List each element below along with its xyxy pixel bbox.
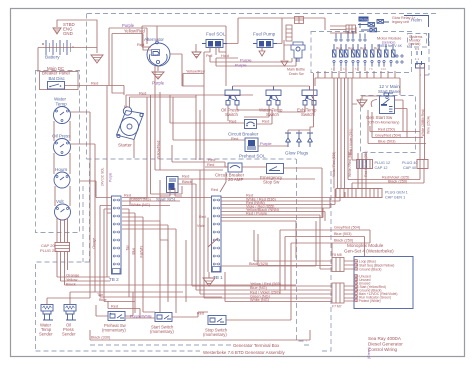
generator assembly dashed vertical x88 [89, 163, 91, 262]
wire fuel sol pull down to switch bus [203, 52, 205, 196]
ground gen start [357, 100, 367, 107]
motor module tiny labels [331, 68, 386, 71]
svg-text:Red: Red [336, 47, 342, 51]
svg-text:Red / Violet (250): Red / Violet (250) [349, 129, 353, 155]
wire oil press sender to gauge [70, 144, 95, 305]
motor module pin row top [335, 39, 366, 41]
svg-text:Purple: Purple [109, 173, 113, 182]
alternator [147, 43, 170, 66]
gen start switch [380, 96, 395, 114]
helm connector plugs [358, 20, 389, 32]
wire red alternator top [142, 46, 151, 48]
svg-text:Red: Red [229, 119, 236, 124]
svg-text:Diesel Generator: Diesel Generator [368, 342, 403, 347]
svg-text:Red: Red [197, 312, 204, 316]
wires grey/red blue black to module [280, 230, 370, 243]
svg-text:Bat Disc: Bat Disc [49, 76, 66, 81]
svg-text:Breaker Panel: Breaker Panel [42, 71, 70, 76]
wires gauge chain left [54, 121, 55, 206]
systems monitor pins [416, 51, 425, 68]
wires into F8 from left [221, 221, 332, 269]
exh temp switch [302, 86, 317, 105]
wire yellow/red pair vertical mid [155, 66, 160, 170]
motor module pin stubs [334, 63, 391, 67]
svg-text:Temp: Temp [56, 102, 68, 107]
svg-text:CAP 40: CAP 40 [403, 166, 416, 170]
helm boundary vertical dashed [86, 14, 88, 160]
ground below alternator [157, 66, 159, 71]
svg-text:Yellow/Red: Yellow/Red [186, 70, 205, 74]
starter [117, 107, 144, 140]
wires bottom switches [96, 292, 133, 316]
water temp switch [266, 86, 281, 105]
wire cb20 left [205, 166, 228, 168]
terminal block TB2 [112, 196, 122, 274]
svg-text:White (28Blk Red): White (28Blk Red) [421, 109, 425, 137]
wire water valve down [284, 40, 291, 60]
svg-text:F7 M7: F7 M7 [332, 305, 342, 309]
start SOL component [167, 177, 179, 193]
svg-text:Fuel SOL: Fuel SOL [206, 32, 226, 37]
ground STBD ENG GND [53, 28, 61, 34]
wire black 525 [221, 265, 316, 267]
svg-text:PLUG 12: PLUG 12 [375, 161, 391, 165]
wire purple vertical from left [109, 28, 124, 93]
svg-text:Red: Red [374, 47, 380, 51]
svg-text:Preheat SOL: Preheat SOL [239, 154, 266, 159]
monoplex module box [354, 257, 413, 309]
svg-text:Black: Black [66, 282, 76, 287]
svg-text:Red: Red [182, 174, 189, 179]
svg-text:Purple: Purple [235, 63, 247, 68]
svg-text:NMEA Net V 4K: NMEA Net V 4K [377, 44, 403, 48]
wire black 330 bottom [90, 330, 310, 340]
wire red circuit breaker left/right [170, 95, 272, 124]
svg-text:M: M [124, 105, 127, 109]
svg-text:legacy unit: legacy unit [392, 20, 409, 24]
svg-text:Sender: Sender [39, 332, 53, 337]
battery [46, 40, 71, 55]
wires left of TB2 [100, 86, 112, 298]
svg-text:Drain Sw: Drain Sw [289, 72, 304, 76]
12V start panel dashed box [361, 96, 416, 153]
wire yellow/red to alternator [112, 34, 151, 51]
generator assembly dashed bottom [36, 168, 332, 351]
svg-text:24V DC SOL: 24V DC SOL [101, 167, 105, 186]
svg-text:Grey/Red (504): Grey/Red (504) [334, 226, 361, 230]
svg-text:Volt: Volt [56, 199, 64, 204]
wires fuel sol down [204, 48, 226, 56]
svg-text:PLUG 40: PLUG 40 [402, 161, 418, 165]
TB1 wire bus right [221, 198, 345, 216]
svg-text:Blue: Blue [99, 298, 107, 302]
fuel pump [257, 40, 273, 48]
generator terminal box dashed right [297, 159, 308, 341]
svg-text:F8 M8: F8 M8 [332, 253, 342, 257]
svg-text:C Ground (Black): C Ground (Black) [356, 268, 381, 272]
wire blue 503 [368, 110, 426, 144]
plug gen 1 connector [336, 189, 382, 198]
svg-text:5 6: 5 6 [355, 68, 359, 71]
circuit breaker 20 amp [228, 163, 242, 172]
start switch momentary [155, 313, 172, 322]
svg-text:(momentary): (momentary) [102, 328, 126, 333]
ground water valve [281, 61, 288, 66]
preheat SOL [245, 138, 258, 152]
svg-text:Wire (250A): Wire (250A) [427, 116, 431, 134]
wire battery to breaker panel [37, 48, 39, 73]
svg-text:Purple: Purple [152, 81, 165, 86]
vertical connector strip [286, 25, 292, 41]
svg-text:Viole: Viole [197, 224, 205, 228]
svg-text:CAP GEN 1: CAP GEN 1 [385, 196, 405, 200]
ground fuel sol [195, 44, 197, 52]
wire yellow/red to fuel sol [183, 74, 204, 87]
svg-text:Starter: Starter [118, 143, 132, 148]
wire u-turn y217 [221, 208, 323, 218]
svg-text:Glow Plugs: Glow Plugs [285, 151, 309, 156]
monoplex pin list [356, 260, 397, 304]
wire long vertical x291 [290, 243, 292, 320]
wires helm to pin row [336, 31, 365, 38]
main DC breaker panel box [40, 72, 79, 90]
TB2 wire labels top [122, 198, 211, 206]
instrument panel dashed box [36, 71, 80, 233]
svg-text:Relay: Relay [360, 18, 369, 22]
wires plug20 down [57, 252, 68, 286]
gauge Oil Press [54, 139, 71, 156]
wire helm bundle left [330, 26, 357, 33]
ground (right of battery) [91, 55, 103, 63]
svg-text:Red (250): Red (250) [378, 128, 396, 132]
wire oil press switch legs down [228, 105, 272, 121]
wire y292 long run [95, 291, 183, 293]
svg-text:Black (250): Black (250) [334, 239, 354, 243]
fuel SOL [206, 40, 223, 48]
circuit breaker upper [245, 120, 257, 129]
emergency stop sw [267, 164, 284, 174]
svg-text:Viola / Red (536): Viola / Red (536) [332, 152, 336, 177]
wires gauge chain right [69, 121, 71, 206]
svg-text:Control Wiring: Control Wiring [368, 347, 398, 352]
wires gen start right wrap [395, 100, 408, 138]
svg-text:GND: GND [63, 31, 73, 36]
svg-text:Sender: Sender [62, 332, 76, 337]
gauge Hours [54, 172, 70, 188]
svg-text:Gen Start Sw: Gen Start Sw [366, 115, 393, 120]
glow plugs [285, 133, 313, 147]
inner dashed vertical [82, 186, 84, 262]
svg-text:Switch: Switch [225, 112, 238, 117]
gauge Water Temp [54, 107, 71, 124]
svg-text:Red: Red [231, 136, 238, 141]
svg-text:Red: Red [360, 47, 366, 51]
systems monitor dashed box [408, 34, 427, 48]
svg-text:1 2: 1 2 [331, 68, 335, 71]
svg-text:(partial): (partial) [409, 42, 421, 46]
wire red to cb20amp [172, 145, 228, 167]
wire exh temp switch legs down [305, 105, 314, 116]
svg-text:PLUG GEN 1: PLUG GEN 1 [385, 191, 408, 195]
wire red/violet vertical label [352, 104, 357, 160]
wire fuel pump down arrow [259, 48, 265, 57]
helm boundary dashed line [87, 13, 437, 15]
wire top bus middle [227, 18, 325, 44]
helm relay block [359, 17, 369, 22]
svg-text:7 8: 7 8 [369, 68, 373, 71]
wire red/violet 325 [348, 179, 420, 181]
plug 12 connector [357, 160, 373, 169]
monoplex pin squares [355, 260, 357, 302]
generator terminal box dashed top [87, 158, 297, 160]
wire red starter top [126, 95, 253, 107]
plug 40 connector [417, 160, 428, 169]
connector F7 M7 [332, 283, 344, 303]
wire purple to alternator [109, 28, 147, 44]
svg-text:White (NG): White (NG) [250, 298, 270, 302]
svg-text:Black (525): Black (525) [249, 262, 269, 266]
svg-text:1 1: 1 1 [415, 57, 419, 61]
svg-text:Oil Press: Oil Press [52, 134, 71, 139]
wire yellow [61, 280, 111, 282]
svg-text:Black: Black [182, 179, 192, 184]
wire start sol red [178, 170, 315, 298]
water temp sender [41, 305, 53, 321]
wire bottom mid verticals [129, 209, 186, 313]
svg-text:(Off-On-Momentary): (Off-On-Momentary) [368, 121, 399, 125]
svg-text:Red / Purple: Red / Purple [246, 212, 267, 216]
svg-text:TB 2: TB 2 [109, 277, 119, 282]
svg-text:Generator Terminal Box: Generator Terminal Box [233, 343, 280, 348]
svg-text:Stop Sw: Stop Sw [263, 180, 280, 185]
wires left into F7 bus [192, 272, 332, 302]
svg-text:Westerbeke 7.6 BTD Generator A: Westerbeke 7.6 BTD Generator Assembly [203, 350, 285, 355]
wire preheat sol right purple [258, 145, 288, 147]
svg-text:Grey/Red (504): Grey/Red (504) [375, 134, 402, 138]
svg-text:Gen-Set 4 (Westerbeke): Gen-Set 4 (Westerbeke) [344, 249, 394, 254]
svg-text:Blue (503): Blue (503) [378, 140, 396, 144]
svg-text:Blue (503): Blue (503) [334, 232, 352, 236]
svg-text:Hold: Hold [221, 54, 229, 58]
wires motor module down [334, 67, 365, 71]
wire stbd ground top [57, 20, 97, 53]
wires into F8 [344, 261, 354, 269]
oil press sender [64, 305, 76, 321]
wire diagonal into TB1 [208, 238, 218, 247]
oil press switch [225, 86, 240, 105]
wire orange [57, 276, 110, 278]
wire volt down to plug20 [57, 218, 68, 242]
motor module pin row bottom [333, 55, 403, 63]
wires into F7 [344, 286, 354, 301]
svg-text:L Protect (White): L Protect (White) [356, 299, 381, 303]
helm bracket [404, 16, 429, 47]
wire purple bus fuel [210, 55, 296, 66]
wire switch row top bus [170, 54, 310, 90]
svg-text:Switch: Switch [266, 112, 279, 117]
svg-text:Switch: Switch [301, 112, 314, 117]
stop switch momentary [208, 316, 226, 325]
wire TB2 tan blue bottom [100, 283, 222, 318]
svg-text:Red: Red [91, 81, 98, 86]
svg-text:Battery: Battery [45, 55, 60, 60]
svg-text:(momentary): (momentary) [203, 332, 227, 337]
svg-text:Red: Red [137, 42, 144, 47]
wires plug12 top feed [352, 153, 366, 160]
wire starter bottom down [134, 95, 151, 198]
svg-text:(momentary): (momentary) [150, 329, 174, 334]
wire preheat sol left red [173, 97, 245, 140]
wire starter bottom to tb [130, 186, 182, 206]
svg-text:White (NG): White (NG) [131, 203, 151, 207]
helm feed connector [346, 25, 356, 33]
svg-text:Red: Red [139, 91, 146, 96]
ground below TB1 [208, 272, 210, 278]
wire alternator loop top [142, 26, 226, 52]
wire right bundle collector [315, 71, 400, 104]
wire start sol bottom [160, 188, 182, 196]
svg-text:Black (250): Black (250) [388, 180, 408, 184]
terminal block TB1 [212, 196, 222, 272]
wire bundle motor module to mid verticals [334, 78, 348, 189]
svg-text:Yellow/Red: Yellow/Red [157, 141, 161, 160]
svg-text:Purple: Purple [260, 141, 272, 146]
svg-text:Red: Red [124, 194, 131, 198]
gauge Volt [55, 204, 71, 220]
svg-text:Purple: Purple [122, 23, 135, 28]
svg-text:CAP 12: CAP 12 [375, 166, 388, 170]
wire glow plug bus [288, 73, 314, 133]
wire black 250 [352, 183, 424, 189]
wire left mid long verticals [160, 95, 200, 283]
raw water solenoid connector [295, 17, 304, 24]
generator terminal box dashed bottom [90, 344, 310, 346]
svg-text:Black (330): Black (330) [91, 336, 111, 340]
svg-text:3 4: 3 4 [343, 68, 347, 71]
svg-text:Tan: Tan [97, 293, 103, 297]
dashed bracket right of systems monitor [420, 33, 429, 75]
svg-text:(Green): (Green) [367, 347, 371, 359]
wire emergency stop right [242, 167, 322, 218]
svg-text:Red: Red [348, 47, 354, 51]
water valve component [291, 42, 305, 62]
wire black [65, 284, 297, 286]
svg-text:Purple/White: Purple/White [130, 315, 152, 319]
wire bat disc out red [65, 86, 125, 96]
wire grey/red 504 [372, 112, 423, 138]
preheat switch momentary [108, 312, 125, 321]
svg-text:Hours: Hours [55, 167, 68, 172]
wire nest right-down [320, 189, 345, 265]
generator assembly dashed corner to left [36, 262, 90, 351]
wire yellow/red vertical [160, 92, 223, 170]
svg-text:8 3: 8 3 [415, 47, 419, 51]
wire right pair to helm down [420, 64, 425, 160]
svg-text:Monoplex Module: Monoplex Module [347, 243, 384, 248]
wire gen start red 250 [370, 126, 420, 132]
svg-text:Fuel Pump: Fuel Pump [253, 32, 276, 37]
wire water temp switch legs down [244, 105, 305, 117]
wire diagonal jumper cb20 [220, 172, 226, 192]
wire downturns [280, 230, 365, 294]
motor module fuse pairs [333, 44, 396, 57]
svg-text:Red: Red [262, 119, 269, 124]
svg-text:Red: Red [207, 162, 214, 167]
svg-text:Red: Red [111, 305, 118, 309]
bat disc switch [48, 82, 65, 90]
svg-text:Red: Red [211, 188, 218, 192]
wire hold down [225, 52, 227, 86]
svg-text:Pull: Pull [206, 54, 212, 58]
svg-text:20 AMP: 20 AMP [228, 177, 243, 182]
svg-text:9 10: 9 10 [381, 68, 386, 71]
wire water temp sender to gauge [47, 112, 90, 305]
motor module dashed box [311, 32, 412, 73]
svg-text:Red: Red [199, 215, 206, 219]
wires plugs down [358, 169, 424, 189]
svg-text:Sea Ray 400DA: Sea Ray 400DA [368, 336, 402, 341]
